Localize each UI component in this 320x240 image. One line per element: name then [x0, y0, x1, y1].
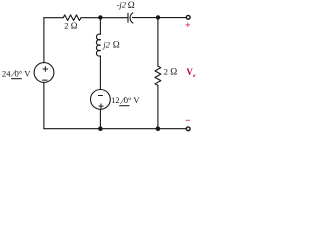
- resistor R1 2ohm top (zigzag): [63, 15, 81, 21]
- junction node bottom-middle: [98, 126, 103, 131]
- capacitor C1 -j2ohm left plate: [127, 13, 129, 22]
- V2 minus sign: [98, 95, 102, 97]
- junction node top-middle: [98, 15, 102, 19]
- wire middle branch upper: [99, 18, 101, 35]
- wire top middle segment: [81, 17, 128, 19]
- underline angle V1: [11, 78, 22, 80]
- svg-text:Vo: Vo: [186, 67, 196, 79]
- svg-text:Ω: Ω: [113, 40, 120, 50]
- voltage source V2 circle 12V: [91, 90, 111, 110]
- wire right branch upper: [157, 18, 159, 66]
- wire bottom: [44, 128, 186, 130]
- V1 minus sign: [42, 79, 47, 81]
- inductor L1 j2ohm (coil): [96, 34, 100, 56]
- terminal bottom-right (open): [186, 127, 190, 131]
- wire middle branch mid: [99, 56, 101, 90]
- resistor R2 2ohm right (vertical zigzag): [155, 66, 161, 85]
- wire right branch lower: [157, 85, 159, 128]
- wire left branch upper: [43, 18, 45, 63]
- V1 plus sign: [43, 67, 48, 72]
- terminal top-right (open): [186, 15, 190, 19]
- capacitor C1 -j2ohm right curved plate: [130, 13, 133, 23]
- wire middle branch lower: [99, 109, 101, 128]
- underline angle V2: [119, 105, 129, 107]
- svg-text:Ω: Ω: [128, 1, 135, 11]
- terminal minus mark (red): [186, 119, 190, 121]
- voltage source V1 circle 24V: [34, 63, 54, 83]
- V2 plus sign: [99, 104, 103, 108]
- svg-text:-j2: -j2: [117, 0, 127, 10]
- junction node bottom-right: [156, 126, 161, 131]
- svg-text:2 Ω: 2 Ω: [64, 21, 77, 31]
- svg-text:j2: j2: [102, 39, 110, 49]
- wire top-left segment: [44, 17, 63, 19]
- wire top-right segment: [132, 17, 185, 19]
- wire left branch lower: [43, 82, 45, 128]
- junction node top-right: [156, 15, 160, 19]
- terminal plus mark (red): [186, 23, 190, 27]
- svg-text:2 Ω: 2 Ω: [164, 66, 178, 77]
